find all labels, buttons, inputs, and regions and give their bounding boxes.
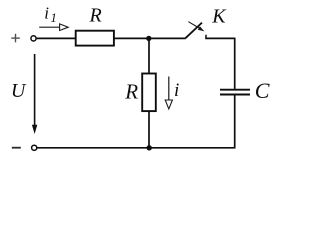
junction node (top, R1/R2/switch)	[146, 36, 151, 41]
svg-text:K: K	[211, 5, 227, 27]
wire: bottom rail	[37, 147, 236, 149]
wire: middle branch upper (junction to R2)	[148, 38, 150, 73]
svg-text:i: i	[44, 3, 49, 22]
wire: + terminal to R1	[36, 37, 76, 39]
wire: switch to top-right corner	[205, 37, 234, 39]
minus terminal polarity mark	[12, 147, 21, 149]
wire: right branch lower (capacitor to bottom corner)	[234, 95, 236, 147]
svg-text:i: i	[174, 80, 179, 101]
node: + input terminal (open circle)	[31, 36, 36, 41]
svg-text:R: R	[124, 79, 138, 103]
current arrow i (hollow head)	[165, 77, 172, 109]
resistor R2 (vertical box)	[142, 74, 156, 112]
wire: R1 to switch	[114, 37, 186, 39]
capacitor C (two plates)	[220, 90, 250, 95]
svg-text:U: U	[11, 80, 27, 102]
current arrow i1	[39, 24, 68, 31]
plus terminal polarity mark	[11, 34, 19, 43]
svg-text:1: 1	[50, 10, 57, 25]
wire: middle branch lower (R2 to bottom rail)	[148, 111, 150, 148]
svg-text:C: C	[255, 78, 270, 103]
switch K (blade with closing arrow)	[185, 22, 206, 39]
svg-text:R: R	[89, 5, 102, 27]
resistor R1 (horizontal box)	[76, 31, 114, 46]
junction node (bottom, R2/bottom rail)	[147, 145, 152, 150]
node: - output terminal (open circle)	[32, 145, 37, 150]
label i1	[44, 3, 57, 25]
wire: right branch upper (corner down to capacitor)	[234, 38, 236, 89]
voltage arrow U	[32, 54, 37, 134]
